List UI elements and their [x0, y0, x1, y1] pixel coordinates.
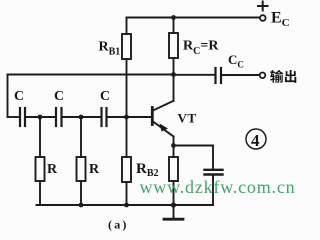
- svg-text:www.dzkfw.com.cn: www.dzkfw.com.cn: [140, 177, 296, 197]
- node RB2-ground: [124, 203, 129, 208]
- terminal output: [260, 73, 266, 79]
- node collector-output junction: [171, 72, 176, 77]
- wire CC to output terminal: [222, 74, 260, 76]
- node B: [79, 115, 84, 120]
- svg-text:4: 4: [251, 131, 260, 150]
- plus sign: [258, 2, 268, 11]
- resistor R1: [36, 117, 45, 205]
- capacitor CC: [216, 68, 222, 83]
- ground: [164, 205, 183, 219]
- label output chinese: [270, 70, 296, 83]
- svg-text:C: C: [14, 89, 24, 104]
- resistor RC: [169, 18, 178, 102]
- figure number circle 4: [246, 129, 266, 149]
- wire emitter to bypass cap: [174, 145, 214, 147]
- wire base line: [107, 116, 152, 118]
- svg-text:(a): (a): [108, 218, 129, 232]
- wire bypass cap vertical lower: [212, 175, 214, 205]
- wire bypass cap vertical upper: [212, 146, 214, 170]
- terminal +EC: [260, 15, 266, 21]
- svg-text:VT: VT: [178, 111, 197, 126]
- wire C1 to C2: [26, 116, 56, 118]
- capacitor CE bypass: [205, 170, 223, 175]
- wire left vertical drop: [7, 75, 9, 118]
- wire bottom rail: [37, 204, 214, 206]
- wire C2 to C3: [62, 116, 101, 118]
- capacitor C2: [56, 108, 62, 126]
- node collector-rail junction: [171, 15, 176, 20]
- capacitor C1: [20, 108, 25, 126]
- wire to C1: [8, 116, 20, 118]
- node ground junction: [171, 202, 176, 207]
- resistor RB1: [122, 18, 131, 118]
- resistor RE: [169, 157, 178, 205]
- wire feedback line from collector to RC network input: [8, 74, 174, 76]
- wire output line: [174, 74, 215, 76]
- node A: [38, 115, 43, 120]
- resistor RB2: [122, 117, 131, 205]
- svg-text:R: R: [89, 162, 100, 177]
- wire top supply rail: [127, 17, 259, 19]
- transistor VT: [152, 101, 173, 157]
- svg-text:C: C: [54, 89, 64, 104]
- svg-text:R: R: [47, 162, 58, 177]
- capacitor C3: [102, 108, 107, 126]
- node R2-ground: [79, 203, 84, 208]
- resistor R2: [77, 117, 86, 205]
- node base: [124, 115, 129, 120]
- node emitter junction: [171, 143, 176, 148]
- svg-text:C: C: [100, 89, 110, 104]
